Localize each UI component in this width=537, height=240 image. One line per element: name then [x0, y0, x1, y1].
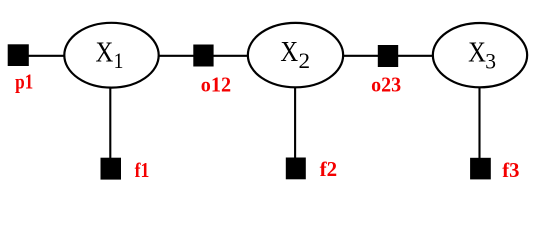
node X1 ellipse [64, 23, 158, 88]
node X3 ellipse [433, 23, 527, 87]
svg-text:3: 3 [485, 48, 496, 73]
factor square o23 [378, 45, 398, 67]
label X3 [468, 38, 496, 74]
node X2 ellipse [248, 23, 343, 87]
svg-text:X: X [468, 38, 486, 69]
svg-text:f1: f1 [135, 158, 150, 182]
svg-text:f2: f2 [320, 157, 338, 181]
svg-text:2: 2 [299, 48, 311, 73]
factor square p1 [8, 44, 29, 66]
svg-text:X: X [96, 38, 114, 69]
svg-text:X: X [280, 37, 298, 68]
wire X3 to f3 [478, 55, 480, 168]
wire X1 to f1 [109, 55, 111, 168]
wire horizontal chain p1-X1-o12-X2-o23-X3 [17, 55, 480, 57]
svg-text:p1: p1 [15, 70, 33, 94]
svg-text:o23: o23 [371, 73, 401, 97]
svg-text:o12: o12 [201, 72, 231, 96]
factor square f1 [101, 158, 122, 180]
wire X2 to f2 [294, 55, 296, 168]
factor square f3 [470, 158, 491, 180]
svg-text:1: 1 [114, 48, 124, 73]
factor square f2 [286, 158, 306, 180]
label X1 [96, 38, 124, 73]
label X2 [280, 37, 310, 73]
factor square o12 [193, 45, 213, 67]
svg-text:f3: f3 [502, 158, 519, 182]
